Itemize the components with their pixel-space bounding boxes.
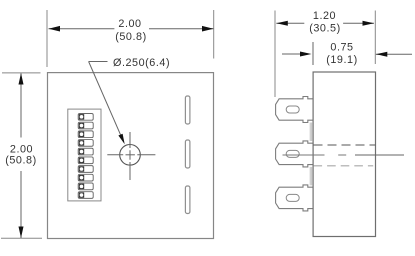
svg-text:(30.5): (30.5) [309, 23, 341, 35]
svg-text:(50.8): (50.8) [115, 31, 147, 43]
svg-text:2.00: 2.00 [118, 18, 141, 30]
svg-text:1.20: 1.20 [313, 10, 336, 22]
svg-text:Ø.250(6.4): Ø.250(6.4) [113, 57, 170, 69]
svg-text:(50.8): (50.8) [5, 154, 37, 166]
svg-text:0.75: 0.75 [330, 41, 353, 53]
svg-text:(19.1): (19.1) [326, 54, 358, 66]
